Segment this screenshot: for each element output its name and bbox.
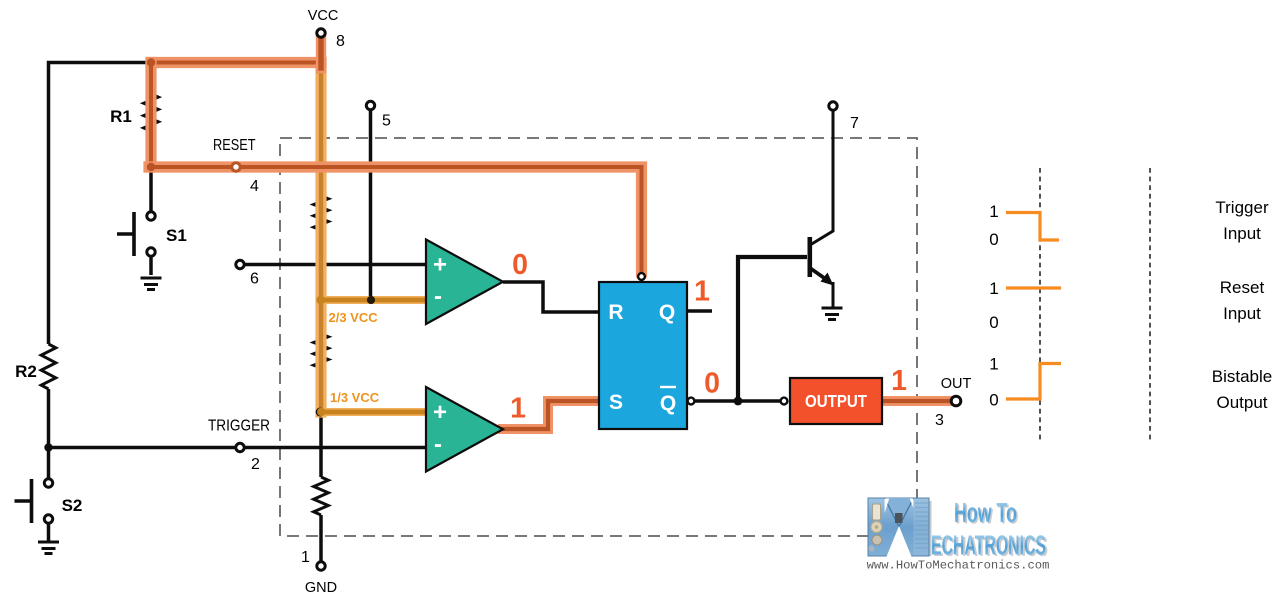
pin 6 terminal	[236, 260, 244, 268]
highlighted RESET trace to flip-flop	[149, 167, 642, 272]
junction pin5 line on 2/3 node	[367, 296, 375, 304]
svg-text:1/3 VCC: 1/3 VCC	[330, 390, 380, 405]
svg-text:1: 1	[989, 202, 998, 221]
wire Qbar to output stage	[695, 399, 781, 403]
switch S2	[15, 479, 53, 523]
svg-text:1: 1	[989, 279, 998, 298]
svg-text:S1: S1	[166, 226, 187, 245]
svg-text:4: 4	[250, 178, 259, 195]
pin 8 VCC terminal	[317, 29, 325, 37]
pin 3 OUT terminal	[951, 396, 961, 406]
ground transistor emitter	[822, 308, 843, 320]
pin 2 terminal	[236, 443, 244, 451]
wire Qbar to transistor base	[738, 257, 807, 401]
svg-text:Trigger: Trigger	[1215, 198, 1269, 217]
ground below S1	[141, 278, 162, 290]
output inverting bubble	[781, 398, 788, 405]
Qbar inverting bubble	[688, 398, 695, 405]
resistor internal divider bottom	[314, 477, 329, 515]
dashed 555 IC boundary box	[280, 138, 917, 536]
waveform reset input	[1006, 286, 1061, 289]
wire Q output stub	[687, 309, 712, 313]
wire S2 to ground	[47, 523, 51, 541]
op-amp comparator 1 (threshold)	[426, 240, 503, 325]
svg-text:0: 0	[512, 249, 528, 281]
svg-text:Input: Input	[1223, 224, 1261, 243]
dashed timeline 2	[1149, 168, 1151, 441]
junction Qbar output node	[734, 397, 743, 406]
svg-text:Q: Q	[659, 301, 675, 324]
svg-text:Q: Q	[660, 392, 676, 415]
resistor internal divider top	[314, 196, 329, 230]
highlighted VCC stub pin 8	[316, 36, 326, 68]
svg-text:Output: Output	[1216, 393, 1267, 412]
svg-text:How To: How To	[954, 497, 1017, 528]
resistor R2	[41, 344, 56, 389]
svg-text:0: 0	[989, 230, 998, 249]
wire transistor collector to pin 7	[810, 110, 833, 245]
svg-text:R: R	[608, 301, 623, 324]
OUTPUT stage box	[790, 378, 882, 424]
svg-text:ECHATRONICS: ECHATRONICS	[931, 530, 1046, 561]
HowToMechatronics logo	[867, 497, 1050, 573]
svg-text:RESET: RESET	[213, 137, 256, 154]
wire left vertical rail	[49, 63, 152, 345]
resistor internal divider middle	[314, 334, 329, 368]
wire pin 6 threshold line	[244, 263, 426, 267]
node 2/3 VCC	[316, 296, 325, 305]
wire divider bottom to pin 1	[319, 515, 323, 562]
wire 2/3 VCC reference to comparator1	[321, 296, 426, 304]
dashed timeline 1	[1039, 168, 1041, 441]
svg-text:VCC: VCC	[308, 8, 339, 24]
flip-flop SR latch box	[599, 282, 687, 429]
svg-text:5: 5	[382, 113, 391, 130]
node 1/3 VCC	[316, 408, 325, 417]
wire internal divider chain	[319, 37, 323, 477]
switch S1	[117, 212, 155, 256]
wire R1 bottom to S1	[149, 167, 153, 212]
svg-text:Input: Input	[1223, 304, 1261, 323]
svg-text:7: 7	[850, 115, 859, 132]
resistor R1	[144, 94, 159, 131]
svg-text:+: +	[433, 252, 447, 279]
svg-text:8: 8	[336, 33, 345, 50]
pin 4 terminal on reset trace	[232, 163, 240, 171]
svg-text:S: S	[609, 391, 623, 414]
pin 5 terminal	[366, 101, 374, 109]
svg-text:-: -	[434, 283, 442, 310]
svg-text:2/3 VCC: 2/3 VCC	[329, 310, 379, 325]
svg-text:2: 2	[251, 456, 260, 473]
svg-text:0: 0	[704, 368, 720, 400]
svg-text:1: 1	[510, 393, 526, 425]
svg-text:1: 1	[989, 355, 998, 374]
highlighted VCC trace to R1 and reset network	[151, 57, 321, 68]
svg-text:GND: GND	[305, 580, 337, 596]
waveform trigger input	[1006, 213, 1059, 241]
svg-text:S2: S2	[62, 496, 83, 515]
wire 1/3 VCC reference to comparator2	[321, 408, 426, 416]
svg-text:R1: R1	[110, 107, 132, 126]
svg-text:OUTPUT: OUTPUT	[805, 391, 867, 411]
wire R2 to S2	[47, 389, 51, 479]
pin 7 terminal	[829, 102, 837, 110]
svg-text:6: 6	[250, 271, 259, 288]
highlighted trace OUTPUT to pin 3	[882, 396, 953, 406]
ground below S2	[38, 542, 59, 554]
svg-text:www.HowToMechatronics.com: www.HowToMechatronics.com	[867, 559, 1050, 573]
wire S1 to ground	[149, 256, 153, 275]
highlighted trace comparator2 output to S input	[503, 401, 599, 429]
transistor Q1 discharge	[808, 237, 834, 286]
svg-text:OUT: OUT	[941, 376, 972, 392]
svg-text:1: 1	[891, 365, 907, 397]
node corner R1 bottom reset	[147, 163, 155, 171]
svg-text:1: 1	[694, 276, 710, 308]
svg-text:-: -	[434, 431, 442, 458]
wire pin 5 control voltage	[369, 108, 373, 300]
highlighted trace through R1	[145, 63, 156, 168]
junction trigger / R2-S2	[44, 443, 52, 451]
wire TRIGGER line pin2	[49, 446, 427, 450]
svg-text:Bistable: Bistable	[1212, 367, 1272, 386]
wire comparator1 output to R input	[503, 282, 599, 312]
reset bubble at flip-flop top	[638, 273, 645, 280]
svg-text:Reset: Reset	[1220, 278, 1265, 297]
svg-text:+: +	[433, 399, 447, 426]
svg-text:TRIGGER: TRIGGER	[208, 418, 270, 435]
svg-text:0: 0	[989, 313, 998, 332]
highlighted internal VCC divider trace	[315, 63, 326, 413]
pin 1 GND terminal	[317, 562, 325, 570]
op-amp comparator 2 (trigger)	[426, 387, 503, 472]
waveform bistable output	[1006, 364, 1061, 400]
wire transistor emitter to ground	[832, 282, 835, 307]
node corner R1 top	[147, 58, 155, 66]
svg-text:3: 3	[935, 412, 944, 429]
svg-text:0: 0	[989, 391, 998, 410]
svg-text:R2: R2	[15, 362, 37, 381]
svg-text:1: 1	[301, 549, 310, 566]
